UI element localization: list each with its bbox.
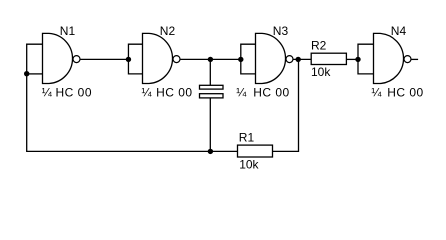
wire: bottom feedback rail (left of R1) — [26, 150, 237, 152]
svg-text:N2: N2 — [160, 24, 176, 38]
svg-text:HC 00: HC 00 — [387, 85, 424, 99]
node: junction at N3 input — [238, 57, 243, 62]
wire: N4 input tie bar — [358, 44, 374, 74]
svg-text:R1: R1 — [239, 130, 255, 144]
inverter bubble N1 output — [73, 56, 80, 63]
wire: N3 output to R2 — [294, 58, 312, 60]
NAND gate N2 — [143, 33, 173, 83]
svg-text:¼: ¼ — [142, 85, 153, 99]
node: junction at N1 bottom input — [24, 71, 29, 76]
inverter bubble N2 output — [173, 56, 180, 63]
svg-text:10k: 10k — [239, 158, 259, 172]
wire: N1 output to N2 input — [81, 58, 129, 60]
svg-text:N1: N1 — [60, 24, 76, 38]
node: junction capacitor/bottom rail — [208, 149, 213, 154]
capacitor C1 top plate — [200, 85, 224, 89]
wire: N2 output to N3 input — [181, 58, 241, 60]
inverter bubble N3 output — [286, 56, 293, 63]
wire: N4 output stub — [412, 58, 419, 60]
wire: N1 bottom input stub — [27, 73, 43, 75]
NAND gate N4 — [374, 33, 404, 83]
wire: left feedback vertical (N1 inputs to bottom rail) — [27, 44, 43, 151]
inverter bubble N4 output — [404, 56, 411, 63]
svg-text:HC 00: HC 00 — [56, 85, 93, 99]
svg-text:HC 00: HC 00 — [156, 85, 193, 99]
svg-text:¼: ¼ — [236, 85, 247, 99]
NAND gate N3 — [256, 33, 286, 83]
capacitor C1 bottom plate — [200, 94, 224, 98]
svg-text:¼: ¼ — [42, 85, 53, 99]
wire: capacitor bottom lead — [209, 98, 211, 151]
wire: R2 to N4 input — [346, 58, 358, 60]
node: junction N3 output / feedback — [296, 57, 301, 62]
wire: N2 input tie bar — [128, 44, 142, 74]
resistor R1 — [238, 145, 273, 157]
svg-text:R2: R2 — [311, 39, 327, 53]
resistor R2 — [311, 53, 346, 64]
NAND gate N1 — [43, 33, 73, 83]
wire: bottom rail (R1 to feedback corner) — [273, 59, 299, 151]
svg-text:N4: N4 — [391, 24, 407, 38]
node: junction at N4 input — [355, 57, 360, 62]
wire: N3 input tie bar — [241, 44, 256, 74]
wire: capacitor top lead — [209, 59, 211, 85]
svg-text:N3: N3 — [273, 24, 289, 38]
svg-text:10k: 10k — [311, 65, 331, 79]
node: junction capacitor top tap — [208, 57, 213, 62]
svg-text:HC 00: HC 00 — [253, 85, 290, 99]
node: junction at N2 input — [126, 57, 131, 62]
svg-text:¼: ¼ — [371, 85, 382, 99]
